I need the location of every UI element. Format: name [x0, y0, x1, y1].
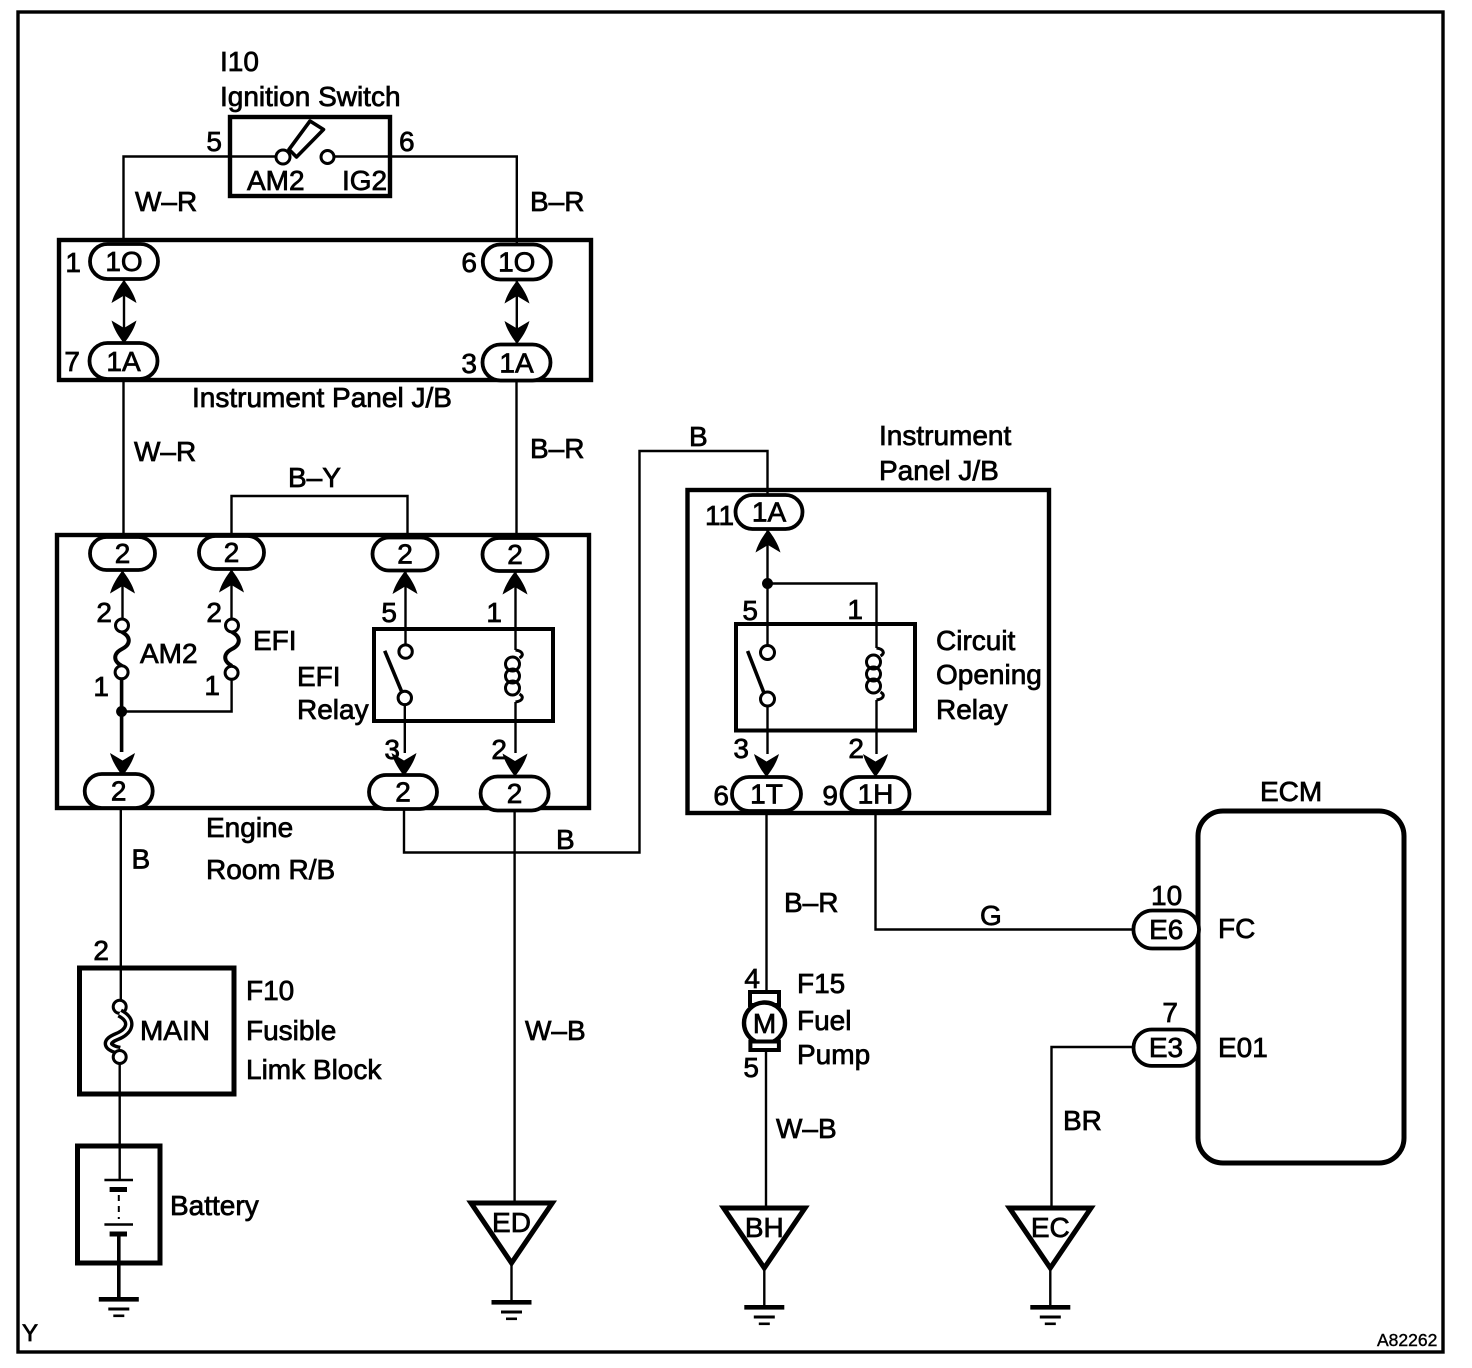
svg-text:4: 4 — [744, 963, 760, 994]
svg-text:IG2: IG2 — [342, 165, 387, 196]
junction block: Instrument Panel J/B (right) — [688, 420, 1050, 813]
wire between 1O and 1A (right) — [516, 280, 518, 345]
svg-text:7: 7 — [64, 346, 80, 377]
svg-text:2: 2 — [224, 537, 240, 568]
svg-text:Pump: Pump — [797, 1039, 870, 1070]
connector 1A (J/B right) — [736, 495, 803, 529]
arrow up col3 — [393, 571, 418, 594]
svg-text:9: 9 — [822, 780, 838, 811]
connector 1A (left) — [90, 343, 158, 379]
connector 1T — [732, 777, 801, 811]
switch lever — [289, 121, 324, 157]
EFI relay — [385, 571, 523, 754]
svg-text:2: 2 — [93, 935, 109, 966]
connector 2 (col4 bottom) — [481, 777, 549, 811]
svg-text:1: 1 — [93, 671, 109, 702]
svg-text:1A: 1A — [106, 346, 141, 377]
svg-text:B–R: B–R — [530, 186, 584, 217]
ground BH — [724, 1208, 805, 1305]
svg-text:Relay: Relay — [936, 694, 1008, 725]
arrow down col1 — [110, 753, 135, 776]
ground symbol (ED) — [492, 1300, 532, 1320]
wire junction to relay pin1 coil — [768, 584, 877, 649]
wire: fuel pump to BH ground, W-B — [765, 1050, 767, 1209]
junction block: Instrument Panel J/B (upper) — [59, 240, 591, 413]
relay switch bottom contact — [398, 691, 411, 704]
svg-text:B–Y: B–Y — [288, 462, 341, 493]
svg-text:ECM: ECM — [1260, 776, 1322, 807]
connector E3 — [1134, 1030, 1199, 1066]
arrow up (left pair) — [112, 280, 137, 303]
svg-text:3: 3 — [733, 733, 749, 764]
relay coil — [506, 650, 523, 702]
svg-text:2: 2 — [491, 734, 507, 765]
arrow up col4 — [503, 572, 528, 595]
svg-text:F10: F10 — [246, 975, 294, 1006]
connector 1H — [842, 777, 910, 811]
svg-text:M: M — [753, 1008, 776, 1039]
relay switch blade — [385, 651, 402, 692]
wire col2 into fuse EFI — [230, 569, 232, 619]
ground ED — [471, 1203, 552, 1300]
arrow up under 1A — [756, 530, 781, 553]
svg-text:1T: 1T — [750, 779, 783, 810]
arrow down (left pair) — [112, 321, 137, 344]
svg-text:B: B — [689, 421, 708, 452]
wire relay pin3 — [404, 705, 406, 753]
wire: ignition pin6 to J/B1 pin6, B-R — [334, 157, 517, 246]
wire: J/B1 pin7 down to Engine Room R/B, W-R — [122, 380, 124, 537]
svg-text:Battery: Battery — [170, 1190, 259, 1221]
svg-text:B–R: B–R — [530, 433, 584, 464]
label F15 Fuel Pump — [797, 968, 870, 1070]
svg-text:Room R/B: Room R/B — [206, 854, 335, 885]
wire: 1H to ECM pin E6, G — [876, 811, 1135, 930]
svg-text:1: 1 — [847, 594, 863, 625]
wire relay pin3 — [766, 706, 768, 754]
svg-text:E3: E3 — [1149, 1032, 1183, 1063]
wire fuse AM2 to junction and down — [120, 679, 124, 752]
wire between 1O and 1A (left) — [123, 279, 125, 343]
svg-text:I10: I10 — [220, 46, 259, 77]
fuel pump F15 motor — [744, 992, 785, 1050]
svg-text:10: 10 — [1151, 880, 1182, 911]
connector 2 (col4 top) — [483, 538, 548, 571]
wire relay pin5 — [404, 571, 406, 646]
svg-text:B–R: B–R — [784, 887, 838, 918]
svg-text:BR: BR — [1063, 1105, 1102, 1136]
svg-text:2: 2 — [96, 597, 112, 628]
wire: battery to ground — [117, 1234, 121, 1297]
ground symbol (EC) — [1030, 1305, 1070, 1325]
circuit opening relay — [748, 646, 884, 755]
svg-text:A82262: A82262 — [1377, 1330, 1437, 1350]
svg-text:W–B: W–B — [525, 1015, 586, 1046]
svg-text:5: 5 — [381, 597, 397, 628]
label Circuit Opening Relay — [936, 625, 1042, 725]
wire: engine R/B col1 down to F10, B — [120, 808, 122, 1001]
relay coil — [867, 648, 884, 700]
svg-text:2: 2 — [111, 776, 127, 807]
circuit opening relay U-box — [736, 624, 915, 731]
wire relay pin1 into coil — [514, 571, 516, 650]
svg-text:Opening: Opening — [936, 659, 1042, 690]
connector E6 — [1133, 911, 1199, 949]
svg-text:Y: Y — [22, 1320, 38, 1347]
svg-text:5: 5 — [742, 595, 758, 626]
svg-text:2: 2 — [397, 539, 413, 570]
fuse AM2 — [115, 619, 197, 679]
arrow up col1 — [110, 571, 135, 594]
svg-text:5: 5 — [206, 126, 222, 157]
svg-text:Ignition Switch: Ignition Switch — [220, 81, 401, 112]
svg-text:Fuel: Fuel — [797, 1005, 851, 1036]
svg-text:2: 2 — [848, 733, 864, 764]
svg-text:2: 2 — [115, 538, 131, 569]
EFI relay U-box — [374, 629, 553, 721]
wire fuse EFI pin1 to junction on AM2 branch — [123, 679, 232, 711]
arrow down col3 — [392, 753, 417, 776]
terminal IG2 contact — [321, 151, 334, 164]
wire: engine R/B col4 down to ED ground, W-B — [513, 810, 515, 1204]
arrow down col4 — [503, 754, 528, 777]
wire: B-Y bridge from EFI fuse to EFI relay pin5 connector — [232, 496, 408, 537]
wire 1A to relay pin5 — [766, 529, 768, 646]
relay switch top contact — [399, 645, 412, 658]
svg-text:1A: 1A — [499, 348, 534, 379]
svg-text:2: 2 — [507, 778, 523, 809]
svg-text:W–R: W–R — [135, 186, 197, 217]
svg-text:2: 2 — [395, 777, 411, 808]
svg-text:EFI: EFI — [253, 625, 297, 656]
svg-text:1H: 1H — [858, 779, 894, 810]
connector 2 (col1 top) — [90, 537, 155, 570]
connector 2 (col1 bottom) — [85, 774, 153, 808]
label EFI Relay — [297, 661, 369, 725]
svg-text:W–R: W–R — [134, 436, 196, 467]
connector 2 (col3 bottom) — [369, 775, 437, 809]
svg-text:1A: 1A — [752, 497, 787, 528]
svg-text:1O: 1O — [498, 247, 535, 278]
wire: engine R/B col3 to Instrument Panel J/B 2 pin 11, B — [404, 451, 768, 853]
wire relay pin2 — [514, 702, 516, 753]
svg-text:BH: BH — [745, 1212, 784, 1243]
arrow down (right pair) — [505, 321, 530, 344]
svg-text:6: 6 — [461, 247, 477, 278]
svg-text:F15: F15 — [797, 968, 845, 999]
wire relay pin2 — [875, 700, 877, 754]
svg-text:11: 11 — [705, 500, 734, 531]
svg-text:2: 2 — [507, 539, 523, 570]
svg-text:G: G — [980, 900, 1002, 931]
svg-text:Limk Block: Limk Block — [246, 1054, 382, 1085]
svg-text:7: 7 — [1162, 997, 1178, 1028]
fusible link block F10 — [80, 968, 235, 1094]
svg-text:AM2: AM2 — [140, 638, 198, 669]
relay block: Engine Room R/B — [57, 535, 589, 885]
svg-text:W–B: W–B — [776, 1113, 837, 1144]
svg-text:6: 6 — [399, 126, 415, 157]
arrow down to 1H — [863, 754, 888, 777]
svg-text:EFI: EFI — [297, 661, 341, 692]
svg-text:1: 1 — [486, 597, 502, 628]
svg-text:B: B — [556, 824, 575, 855]
svg-text:AM2: AM2 — [247, 165, 305, 196]
arrow up col2 — [219, 570, 244, 593]
svg-text:5: 5 — [743, 1052, 759, 1083]
svg-text:E01: E01 — [1218, 1032, 1268, 1063]
svg-text:1O: 1O — [105, 246, 142, 277]
wire: J/B1 pin3 down to Engine Room R/B, B-R — [515, 380, 517, 538]
svg-text:E6: E6 — [1149, 914, 1183, 945]
wire: ignition pin5 to J/B1 pin1, W-R — [124, 157, 277, 241]
svg-text:B: B — [132, 844, 151, 875]
arrow up (right pair) — [505, 281, 530, 304]
ground EC — [1010, 1208, 1092, 1305]
svg-text:Fusible: Fusible — [246, 1015, 336, 1046]
battery — [78, 1146, 259, 1263]
wire col1 into fuse AM2 — [121, 570, 123, 619]
svg-text:Panel J/B: Panel J/B — [879, 455, 999, 486]
wire: F10 to battery — [118, 1064, 120, 1181]
wire: E3 to EC ground, BR — [1052, 1047, 1134, 1209]
connector 2 (col3 top) — [373, 538, 438, 571]
junction node — [116, 706, 127, 717]
svg-text:6: 6 — [713, 780, 729, 811]
arrow down to 1T — [754, 754, 779, 777]
junction node — [762, 578, 773, 589]
svg-text:Engine: Engine — [206, 812, 293, 843]
relay switch bottom contact — [761, 692, 775, 706]
connector 1A (right) — [483, 345, 551, 381]
fuse EFI — [225, 619, 296, 679]
ground (battery) — [99, 1297, 139, 1317]
svg-text:Instrument: Instrument — [879, 420, 1011, 451]
svg-text:ED: ED — [492, 1207, 531, 1238]
ground symbol (BH) — [744, 1305, 784, 1325]
ignition switch I10 — [206, 46, 414, 196]
svg-text:Relay: Relay — [297, 694, 369, 725]
svg-text:1: 1 — [65, 247, 81, 278]
relay switch top contact — [761, 646, 775, 660]
svg-text:FC: FC — [1218, 913, 1255, 944]
svg-text:3: 3 — [461, 348, 477, 379]
terminal AM2 contact — [276, 150, 290, 164]
svg-text:Circuit: Circuit — [936, 625, 1016, 656]
svg-text:MAIN: MAIN — [140, 1015, 210, 1046]
ECM — [1198, 776, 1404, 1163]
svg-text:1: 1 — [204, 670, 220, 701]
svg-text:2: 2 — [206, 597, 222, 628]
label F10 Fusible Limk Block — [246, 975, 382, 1085]
wire: 1T down to fuel pump, B-R — [765, 811, 767, 992]
connector 2 (col2 top) — [199, 536, 264, 569]
connector 1O (right) — [483, 245, 551, 280]
connector 1O (left) — [90, 244, 158, 279]
svg-text:Instrument Panel J/B: Instrument Panel J/B — [192, 382, 452, 413]
svg-text:EC: EC — [1031, 1212, 1070, 1243]
relay switch blade — [748, 651, 764, 693]
